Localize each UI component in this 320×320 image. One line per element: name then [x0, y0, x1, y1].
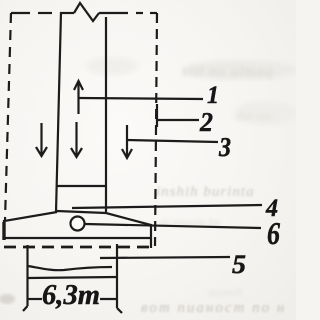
svg-text:siil no almaq: siil no almaq — [182, 64, 273, 80]
svg-text:aut nm: aut nm — [236, 108, 272, 123]
svg-text:6,3m: 6,3m — [42, 280, 100, 311]
svg-text:6: 6 — [267, 215, 280, 251]
svg-text:5: 5 — [232, 250, 246, 279]
svg-text:2: 2 — [199, 107, 213, 137]
svg-text:inshih burinta: inshih burinta — [156, 184, 255, 200]
svg-text:stansilt: stansilt — [208, 285, 243, 299]
svg-text:вот пианост по н: вот пианост по н — [141, 300, 286, 316]
svg-text:3: 3 — [218, 132, 231, 162]
svg-text:1: 1 — [207, 82, 219, 109]
